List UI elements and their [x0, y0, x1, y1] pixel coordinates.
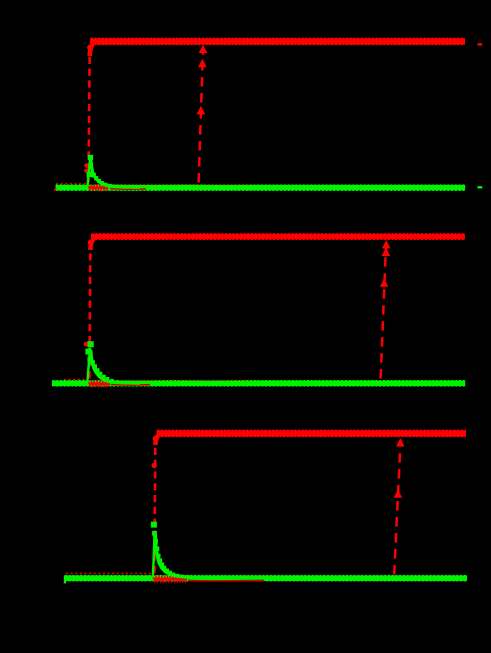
red tail s3 — [153, 577, 187, 581]
arrowheads s2 — [382, 240, 391, 248]
red corner s2 — [90, 237, 97, 250]
arrowheads s1 — [199, 45, 208, 53]
green spike s2 — [87, 348, 90, 382]
right tick green s1 — [478, 186, 483, 188]
red tail s2 — [89, 382, 110, 386]
right tick red s1 — [478, 43, 483, 45]
green baseline s2 — [52, 380, 465, 386]
red top plateau s1 — [90, 38, 465, 44]
red spike marker s2 — [84, 342, 89, 347]
red riser s2 — [89, 247, 90, 379]
green spike s3 — [153, 532, 155, 575]
red top plateau s3 — [157, 430, 467, 436]
red arrow s2 — [381, 243, 387, 379]
red arrow s3 — [394, 440, 400, 575]
red arrow s1 — [199, 47, 204, 183]
red riser s3 — [154, 442, 155, 573]
red tail s1 — [89, 186, 109, 189]
green squares s2 — [88, 341, 94, 347]
red top plateau s2 — [91, 234, 465, 240]
red corner s1 — [90, 41, 97, 56]
green start tick s3 — [64, 575, 66, 583]
red spike markers s1 — [84, 163, 88, 167]
riser circle marker s3 — [152, 463, 157, 468]
red left tip s1 — [54, 188, 56, 190]
red dotted baseline s3 — [66, 572, 152, 574]
green squares s3 — [151, 522, 157, 528]
green squares s1 — [88, 155, 93, 160]
green baseline s1 — [56, 185, 466, 191]
red dotted baseline s2 — [64, 379, 88, 381]
arrowheads s3 — [396, 438, 405, 446]
red corner s3 — [155, 434, 162, 446]
green spike s1 — [88, 158, 91, 186]
red dotted baseline s1 — [56, 183, 87, 185]
red riser s1 — [88, 53, 89, 182]
green baseline s3 — [65, 575, 468, 581]
